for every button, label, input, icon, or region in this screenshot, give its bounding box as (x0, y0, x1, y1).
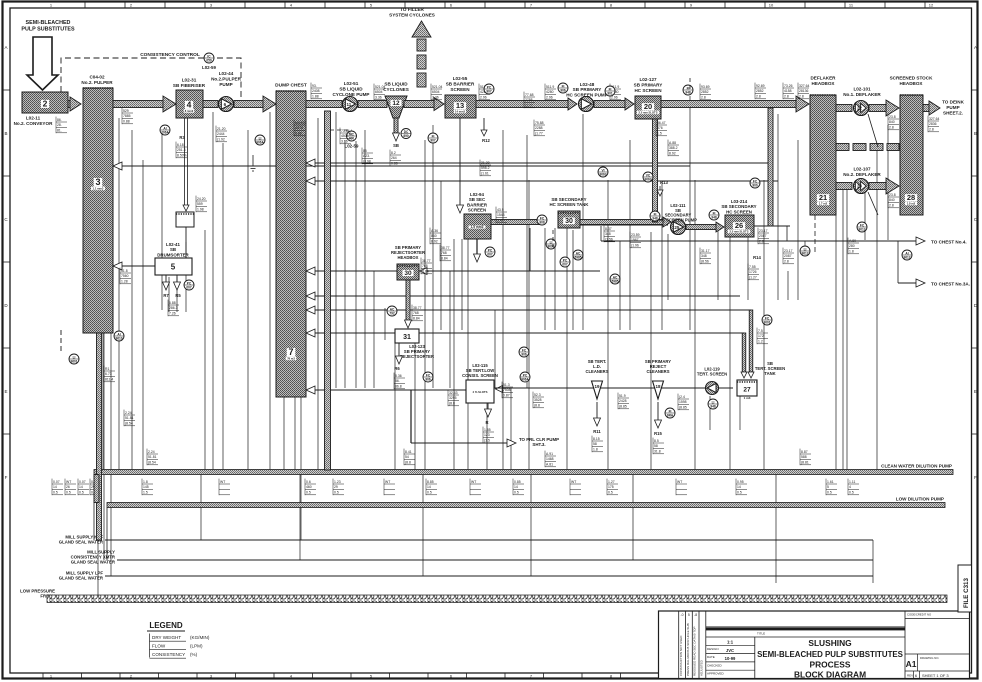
svg-text:DESIGN: DESIGN (707, 647, 719, 651)
svg-text:A23.: A23. (363, 154, 370, 158)
svg-text:8 mm3: 8 mm3 (185, 109, 194, 113)
svg-text:TANK: TANK (764, 371, 775, 376)
svg-text:51.9: 51.9 (619, 394, 626, 398)
svg-text:(LPM): (LPM) (190, 644, 203, 649)
svg-text:58: 58 (654, 444, 658, 448)
svg-text:2.96: 2.96 (611, 96, 618, 100)
svg-text:TO DEINK: TO DEINK (942, 100, 965, 105)
svg-text:840: 840 (889, 120, 895, 124)
svg-text:4: 4 (849, 485, 851, 489)
svg-text:14: 14 (737, 485, 741, 489)
svg-text:1.28: 1.28 (121, 280, 128, 284)
svg-text:L02-55: L02-55 (453, 76, 468, 81)
svg-text:SHEET.2.: SHEET.2. (943, 111, 963, 116)
svg-text:792: 792 (389, 311, 395, 315)
svg-text:85: 85 (363, 149, 367, 153)
svg-text:1.61: 1.61 (827, 480, 834, 484)
svg-text:SB FIBERISER: SB FIBERISER (173, 83, 206, 88)
svg-text:3295: 3295 (449, 396, 457, 400)
svg-text:(1.77: (1.77 (525, 104, 533, 108)
svg-text:A: A (4, 45, 7, 50)
svg-text:0.5: 0.5 (334, 491, 339, 495)
svg-text:GLAND SEAL WATER: GLAND SEAL WATER (71, 560, 116, 565)
svg-text:-0: -0 (680, 613, 683, 617)
svg-text:F: F (5, 475, 8, 480)
svg-text:1.11: 1.11 (849, 480, 855, 484)
svg-text:206A: 206A (161, 130, 169, 134)
svg-text:HC SCREEN PUMP: HC SCREEN PUMP (566, 92, 608, 97)
svg-text:(%): (%) (190, 652, 198, 657)
svg-text:TO CHEST No.3A.: TO CHEST No.3A. (931, 282, 970, 287)
svg-text:B: B (974, 131, 977, 136)
svg-text:2.8: 2.8 (701, 96, 706, 100)
svg-text:6.88: 6.88 (169, 301, 176, 305)
svg-text:14: 14 (514, 485, 518, 489)
svg-text:SEMI-BLEACHED PULP SUBSTITUTES: SEMI-BLEACHED PULP SUBSTITUTES (757, 650, 903, 659)
svg-text:WT: WT (571, 480, 576, 484)
svg-text:E: E (4, 389, 7, 394)
svg-text:906: 906 (560, 88, 566, 92)
svg-text:9063: 9063 (644, 177, 651, 181)
svg-text:11: 11 (346, 102, 351, 107)
svg-text:1.7 m3: 1.7 m3 (819, 202, 828, 206)
svg-text:38.77: 38.77 (413, 306, 422, 310)
svg-text:1.8: 1.8 (143, 480, 148, 484)
svg-text:900: 900 (752, 183, 758, 187)
svg-text:1468: 1468 (546, 457, 554, 461)
svg-text:7885: 7885 (123, 114, 131, 118)
svg-text:L02-44: L02-44 (219, 71, 234, 76)
svg-text:13: 13 (456, 101, 464, 110)
svg-text:286.3: 286.3 (169, 306, 178, 310)
svg-text:0.5: 0.5 (737, 491, 742, 495)
svg-text:4158: 4158 (784, 89, 792, 93)
svg-text:460: 460 (306, 485, 312, 489)
svg-text:123: 123 (484, 433, 490, 437)
svg-text:GLAND SEAL WATER: GLAND SEAL WATER (59, 576, 104, 581)
svg-text:(8.81: (8.81 (801, 461, 809, 465)
svg-text:1.5: 1.5 (657, 132, 662, 136)
svg-text:907: 907 (486, 89, 492, 93)
svg-text:23.8: 23.8 (889, 115, 896, 119)
svg-text:20: 20 (644, 102, 652, 111)
svg-text:A.36: A.36 (431, 229, 438, 233)
svg-text:51.81: 51.81 (125, 416, 134, 420)
svg-text:908: 908 (539, 220, 545, 224)
svg-text:768: 768 (422, 264, 428, 268)
svg-text:PULP SUBSTITUTES: PULP SUBSTITUTES (21, 27, 75, 33)
svg-text:0.5: 0.5 (66, 491, 71, 495)
svg-text:9601: 9601 (70, 359, 77, 363)
svg-text:FLOW: FLOW (152, 644, 166, 649)
svg-text:511.9: 511.9 (546, 85, 554, 89)
svg-text:876: 876 (657, 126, 663, 130)
svg-text:529: 529 (123, 109, 129, 113)
svg-text:5: 5 (688, 613, 690, 617)
svg-text:3.45: 3.45 (497, 219, 504, 223)
svg-text:(8.8: (8.8 (534, 404, 540, 408)
svg-text:No.2. CONVEYOR: No.2. CONVEYOR (14, 121, 53, 126)
svg-text:251.3: 251.3 (177, 148, 186, 152)
svg-text:CONSIS. SCREEN: CONSIS. SCREEN (462, 373, 498, 378)
svg-text:CONSTRUCTION NOT USED: CONSTRUCTION NOT USED (679, 635, 683, 676)
svg-text:2788: 2788 (525, 98, 533, 102)
svg-text:12: 12 (929, 3, 934, 8)
svg-text:8.84: 8.84 (413, 317, 420, 321)
svg-text:-8: -8 (694, 613, 697, 617)
svg-text:SYSTEM CYCLONES: SYSTEM CYCLONES (389, 12, 435, 17)
svg-text:R7: R7 (163, 293, 169, 298)
svg-text:10-99: 10-99 (725, 656, 736, 661)
svg-text:21.28: 21.28 (481, 161, 490, 165)
svg-text:0.87: 0.87 (503, 394, 510, 398)
svg-text:REV: REV (907, 674, 913, 678)
svg-text:6504: 6504 (432, 90, 440, 94)
svg-text:(3.98: (3.98 (363, 160, 371, 164)
svg-text:4: 4 (187, 100, 192, 110)
svg-text:F: F (974, 475, 977, 480)
svg-text:R13: R13 (660, 180, 668, 185)
svg-text:2444: 2444 (217, 132, 225, 136)
svg-text:DRUMSORTER: DRUMSORTER (157, 252, 189, 257)
svg-text:0.85: 0.85 (514, 480, 521, 484)
svg-text:HEADBOX: HEADBOX (900, 81, 924, 86)
svg-text:CYCLONE PUMP: CYCLONE PUMP (332, 92, 369, 97)
svg-text:9063: 9063 (599, 172, 606, 176)
svg-text:93.: 93. (312, 84, 317, 88)
svg-text:(1.56: (1.56 (605, 238, 613, 242)
svg-text:906A: 906A (256, 140, 264, 144)
svg-text:HC SCREEN PUMP: HC SCREEN PUMP (659, 217, 697, 222)
svg-text:WT: WT (471, 480, 476, 484)
svg-text:L02-127: L02-127 (639, 77, 657, 82)
svg-text:1.27: 1.27 (608, 480, 615, 484)
svg-text:38.77: 38.77 (422, 259, 431, 263)
svg-text:9612: 9612 (801, 251, 808, 255)
svg-text:4504: 4504 (341, 134, 349, 138)
svg-text:8.36: 8.36 (395, 374, 402, 378)
svg-text:SCREEN: SCREEN (468, 208, 486, 213)
svg-text:1.8: 1.8 (593, 448, 598, 452)
svg-text:3.36: 3.36 (432, 96, 439, 100)
svg-text:2.8: 2.8 (784, 95, 789, 99)
svg-text:8.88: 8.88 (295, 132, 302, 136)
svg-text:38.77: 38.77 (441, 246, 450, 250)
svg-text:26: 26 (735, 221, 743, 230)
svg-text:SB LIQUID: SB LIQUID (384, 82, 408, 87)
svg-text:R15: R15 (654, 431, 662, 436)
svg-text:L02-59: L02-59 (202, 65, 216, 70)
svg-text:CLEANERS: CLEANERS (585, 369, 608, 374)
svg-text:81.: 81. (57, 129, 62, 133)
svg-text:8.2: 8.2 (391, 151, 396, 155)
svg-text:52.3: 52.3 (534, 393, 541, 397)
svg-text:0.07: 0.07 (53, 480, 60, 484)
svg-text:8.85: 8.85 (427, 480, 434, 484)
svg-text:5: 5 (171, 263, 176, 272)
svg-text:12: 12 (392, 100, 400, 107)
svg-text:264: 264 (391, 156, 397, 160)
svg-text:HC SCREEN: HC SCREEN (634, 88, 662, 93)
svg-text:521.04: 521.04 (375, 85, 385, 89)
svg-text:L02-59: L02-59 (345, 144, 359, 149)
svg-text:A.88: A.88 (669, 141, 676, 145)
svg-text:25: 25 (674, 225, 680, 230)
svg-text:559: 559 (197, 202, 203, 206)
svg-text:0.5: 0.5 (827, 491, 832, 495)
svg-text:948: 948 (652, 216, 658, 220)
svg-text:SCREENED STOCK: SCREENED STOCK (890, 76, 933, 81)
svg-text:27: 27 (743, 387, 751, 394)
svg-text:LOW DILUTION PUMP: LOW DILUTION PUMP (896, 497, 944, 502)
svg-text:7560: 7560 (121, 274, 129, 278)
svg-text:E: E (974, 389, 977, 394)
svg-text:R5: R5 (175, 293, 181, 298)
svg-text:1 m3: 1 m3 (744, 396, 751, 400)
svg-text:1.23: 1.23 (334, 480, 341, 484)
svg-text:SHEET 1 OF 3: SHEET 1 OF 3 (922, 673, 949, 678)
svg-text:(8.8: (8.8 (449, 402, 455, 406)
svg-text:SCREEN: SCREEN (450, 87, 470, 92)
svg-text:A1: A1 (906, 659, 917, 669)
svg-text:8.37: 8.37 (605, 227, 612, 231)
svg-text:(8.56: (8.56 (701, 260, 709, 264)
svg-text:58: 58 (593, 442, 597, 446)
svg-text:23: 23 (857, 184, 862, 189)
svg-text:0.88: 0.88 (123, 120, 130, 124)
svg-text:907: 907 (430, 138, 436, 142)
svg-text:A.91: A.91 (546, 452, 553, 456)
svg-text:30: 30 (404, 270, 412, 277)
svg-text:R11: R11 (593, 429, 601, 434)
svg-text:145: 145 (143, 485, 149, 489)
svg-text:PUMP: PUMP (219, 82, 232, 87)
svg-text:TO CHEST No.4.: TO CHEST No.4. (931, 240, 967, 245)
svg-text:2: 2 (43, 99, 48, 109)
svg-text:A: A (974, 45, 977, 50)
svg-text:L02-31: L02-31 (182, 78, 197, 83)
svg-text:2.8: 2.8 (784, 260, 789, 264)
svg-text:1967: 1967 (631, 238, 639, 242)
svg-text:9RA: 9RA (667, 413, 674, 417)
svg-text:(1.96: (1.96 (631, 244, 639, 248)
svg-text:CHECKED: CHECKED (707, 663, 723, 667)
svg-text:24.20: 24.20 (197, 197, 206, 201)
svg-text:(8.54: (8.54 (148, 461, 156, 465)
svg-text:327.64: 327.64 (799, 84, 809, 88)
svg-text:No.2. PULPER: No.2. PULPER (81, 80, 113, 85)
svg-text:1.98: 1.98 (197, 208, 204, 212)
svg-text:R: R (485, 420, 488, 425)
svg-text:SLUSHING: SLUSHING (808, 638, 851, 648)
svg-text:SB BARRIER: SB BARRIER (446, 82, 475, 87)
svg-text:L02-107: L02-107 (853, 167, 871, 172)
svg-text:2.24: 2.24 (148, 450, 155, 454)
svg-text:598.2: 598.2 (481, 166, 490, 170)
svg-text:REISSUED READ SEC DATA B TOP: REISSUED READ SEC DATA B TOP (693, 627, 697, 676)
svg-text:8.92: 8.92 (431, 240, 438, 244)
svg-text:21: 21 (819, 193, 827, 202)
svg-text:TERT. SCREEN: TERT. SCREEN (697, 372, 727, 377)
svg-text:HEADBOX: HEADBOX (812, 81, 836, 86)
svg-text:14 mm3: 14 mm3 (455, 110, 466, 114)
svg-text:SB LIQUID: SB LIQUID (339, 86, 363, 91)
svg-text:280: 280 (849, 244, 855, 248)
svg-text:CYCLONES: CYCLONES (383, 87, 409, 92)
svg-text:7.26: 7.26 (169, 312, 176, 316)
svg-text:30: 30 (565, 218, 573, 225)
svg-text:948: 948 (711, 215, 717, 219)
svg-text:0.5: 0.5 (306, 491, 311, 495)
svg-text:FILE C313: FILE C313 (963, 578, 970, 608)
svg-text:L02-51: L02-51 (344, 81, 359, 86)
svg-text:A.81: A.81 (546, 463, 553, 467)
svg-text:18: 18 (655, 384, 661, 389)
svg-text:77.68: 77.68 (525, 93, 534, 97)
svg-text:8.84: 8.84 (422, 270, 429, 274)
svg-text:LEGEND: LEGEND (149, 621, 183, 630)
svg-text:9612: 9612 (903, 255, 910, 259)
svg-text:1.2: 1.2 (758, 340, 763, 344)
svg-text:SHT.3.: SHT.3. (532, 442, 545, 447)
svg-text:75.88: 75.88 (535, 121, 544, 125)
svg-text:HEADBOX: HEADBOX (398, 255, 419, 260)
svg-text:73.84: 73.84 (341, 129, 350, 133)
svg-text:29: 29 (334, 485, 338, 489)
svg-text:2087: 2087 (784, 254, 792, 258)
svg-text:0.5: 0.5 (53, 491, 58, 495)
svg-text:21.20: 21.20 (217, 127, 226, 131)
svg-text:(8.85: (8.85 (619, 405, 627, 409)
svg-text:2408: 2408 (312, 89, 320, 93)
svg-text:2.8: 2.8 (929, 128, 934, 132)
svg-text:1598: 1598 (679, 400, 687, 404)
svg-text:No.1. DEFLAKER: No.1. DEFLAKER (843, 92, 881, 97)
svg-text:840: 840 (889, 198, 895, 202)
svg-text:4280: 4280 (546, 90, 554, 94)
svg-text:R1: R1 (105, 367, 109, 371)
svg-text:23.17: 23.17 (759, 229, 768, 233)
svg-text:388.2: 388.2 (669, 146, 678, 150)
svg-text:2.24: 2.24 (125, 411, 132, 415)
svg-text:1.5 mm3: 1.5 mm3 (471, 225, 484, 229)
svg-text:92.69: 92.69 (756, 84, 765, 88)
svg-text:1.85: 1.85 (484, 428, 491, 432)
svg-text:348: 348 (701, 254, 707, 258)
svg-text:906: 906 (521, 352, 527, 356)
svg-text:059: 059 (206, 58, 212, 62)
svg-text:1:1: 1:1 (727, 640, 734, 645)
svg-text:2087: 2087 (759, 234, 767, 238)
svg-text:CLEANERS: CLEANERS (646, 369, 669, 374)
svg-text:C04-02: C04-02 (89, 75, 105, 80)
svg-text:DRAWING NO.: DRAWING NO. (920, 656, 939, 660)
svg-text:6.73: 6.73 (105, 372, 112, 376)
svg-text:906A: 906A (521, 377, 529, 381)
svg-text:26: 26 (66, 485, 70, 489)
svg-text:2852: 2852 (756, 89, 764, 93)
svg-text:0.5: 0.5 (79, 491, 84, 495)
svg-text:768: 768 (413, 311, 419, 315)
svg-text:TO FILLER: TO FILLER (400, 7, 424, 12)
svg-text:(KG/MIN): (KG/MIN) (190, 635, 210, 640)
svg-text:1.88: 1.88 (312, 95, 319, 99)
svg-text:2836: 2836 (929, 122, 937, 126)
svg-text:8.84: 8.84 (441, 257, 448, 261)
svg-text:31: 31 (403, 334, 411, 341)
svg-text:14: 14 (427, 485, 431, 489)
svg-text:19: 19 (594, 384, 600, 389)
svg-text:86.: 86. (57, 118, 62, 122)
svg-text:948: 948 (685, 90, 691, 94)
svg-text:JVC: JVC (726, 648, 734, 653)
svg-text:32.43: 32.43 (449, 391, 458, 395)
svg-text:9013: 9013 (858, 227, 865, 231)
svg-text:3.36: 3.36 (375, 96, 382, 100)
svg-text:7.55: 7.55 (749, 265, 756, 269)
svg-text:B: B (4, 131, 7, 136)
svg-text:768: 768 (441, 251, 447, 255)
svg-text:860: 860 (431, 234, 437, 238)
svg-text:890: 890 (403, 134, 409, 138)
svg-text:10: 10 (769, 3, 774, 8)
svg-text:REJECTSORTER: REJECTSORTER (400, 354, 434, 359)
svg-text:3528: 3528 (534, 398, 542, 402)
svg-text:2.96: 2.96 (546, 96, 553, 100)
svg-text:TITLE: TITLE (757, 632, 765, 636)
svg-text:007: 007 (562, 262, 568, 266)
svg-text:CLEAN WATER DILUTION PUMP: CLEAN WATER DILUTION PUMP (881, 464, 952, 469)
svg-text:28: 28 (907, 193, 915, 202)
svg-text:0.07: 0.07 (79, 480, 86, 484)
svg-text:0.5: 0.5 (608, 491, 613, 495)
svg-text:348: 348 (605, 232, 611, 236)
svg-text:R3: R3 (179, 135, 185, 140)
svg-text:8.92: 8.92 (669, 152, 676, 156)
svg-text:327.64: 327.64 (929, 117, 939, 121)
svg-text:5985: 5985 (574, 255, 581, 259)
svg-text:175: 175 (608, 485, 614, 489)
svg-text:172: 172 (758, 334, 764, 338)
svg-text:51.8: 51.8 (121, 269, 128, 273)
svg-text:CONSISTENCY CONTROL: CONSISTENCY CONTROL (140, 52, 200, 58)
svg-text:APPROVED: APPROVED (707, 672, 725, 676)
svg-text:R6: R6 (394, 366, 400, 371)
svg-text:23.17: 23.17 (784, 249, 793, 253)
svg-text:1.8 m3: 1.8 m3 (907, 202, 916, 206)
svg-text:23.8: 23.8 (889, 193, 896, 197)
svg-text:CODE/CREDIT NO: CODE/CREDIT NO (907, 613, 932, 617)
svg-text:007: 007 (487, 252, 493, 256)
svg-text:PRESS RAL MODS B SCR HOLE SUB: PRESS RAL MODS B SCR HOLE SUB (686, 623, 690, 676)
svg-text:76 m3: 76 m3 (287, 357, 295, 361)
svg-text:14: 14 (79, 485, 83, 489)
svg-text:0.6: 0.6 (306, 480, 311, 484)
svg-text:8.5: 8.5 (654, 439, 659, 443)
svg-text:No.2.PULPER: No.2.PULPER (211, 77, 242, 82)
svg-text:2288: 2288 (535, 126, 543, 130)
svg-text:31.17: 31.17 (701, 249, 710, 253)
svg-text:WT: WT (66, 480, 71, 484)
svg-text:28.: 28. (57, 123, 62, 127)
svg-text:SEMI-BLEACHED: SEMI-BLEACHED (26, 20, 71, 26)
svg-text:PROCESS: PROCESS (810, 660, 851, 670)
svg-text:0.5: 0.5 (427, 491, 432, 495)
svg-text:A578: A578 (295, 126, 303, 130)
svg-text:86.8: 86.8 (395, 385, 402, 389)
svg-text:521.04: 521.04 (432, 85, 442, 89)
svg-text:1.8: 1.8 (849, 250, 854, 254)
